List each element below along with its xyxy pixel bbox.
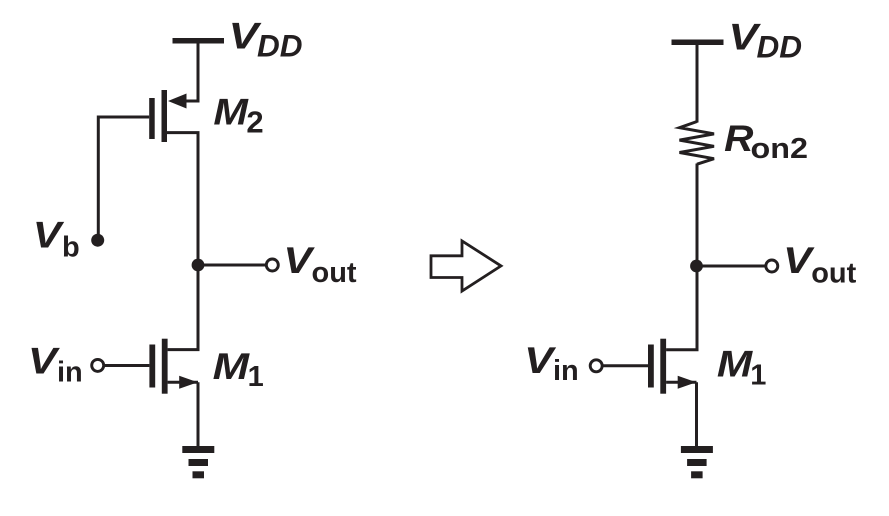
svg-text:R: R: [724, 118, 754, 159]
svg-text:out: out: [811, 257, 856, 289]
svg-text:b: b: [62, 231, 80, 263]
svg-text:V: V: [28, 340, 61, 381]
svg-text:M: M: [213, 346, 251, 387]
svg-text:V: V: [33, 214, 65, 255]
svg-text:M: M: [717, 343, 754, 384]
svg-text:M: M: [213, 92, 249, 133]
svg-text:DD: DD: [757, 28, 803, 64]
svg-text:on2: on2: [751, 133, 809, 165]
svg-text:1: 1: [750, 360, 766, 392]
svg-text:DD: DD: [257, 28, 303, 64]
svg-text:out: out: [312, 257, 357, 289]
svg-text:in: in: [57, 357, 83, 389]
svg-text:2: 2: [246, 105, 263, 140]
svg-text:in: in: [553, 355, 579, 387]
svg-text:1: 1: [248, 361, 264, 393]
